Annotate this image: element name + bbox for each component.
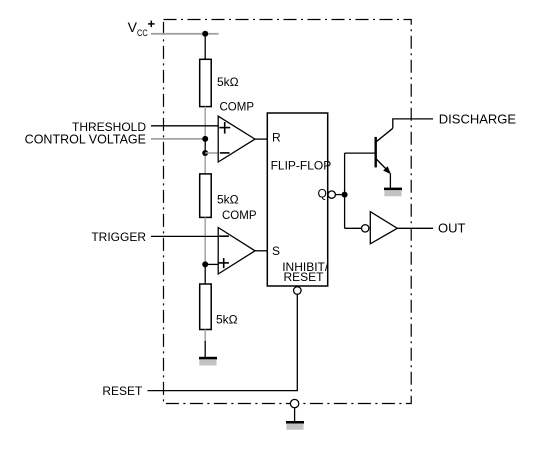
IC boundary dash-dot border	[164, 20, 412, 404]
wire CV node to comp1 minus node	[204, 139, 206, 153]
resistor R3	[200, 284, 212, 330]
wire comp2 output to S input	[255, 250, 267, 252]
svg-text:DISCHARGE: DISCHARGE	[439, 111, 517, 126]
ground (GND pin)	[286, 421, 304, 430]
wire Q to junction	[335, 194, 344, 196]
wire Q riser	[344, 153, 346, 228]
output buffer U3 (inverter)	[362, 212, 398, 244]
svg-text:OUT: OUT	[438, 220, 466, 235]
wire TRIGGER	[151, 235, 218, 237]
terminal Q	[328, 191, 335, 198]
svg-text:COMP: COMP	[220, 102, 255, 114]
svg-text:RESET: RESET	[283, 270, 324, 284]
wire THRESHOLD	[151, 125, 218, 127]
svg-text:Q: Q	[318, 187, 327, 201]
wire RESET riser	[148, 294, 298, 390]
svg-text:CC: CC	[137, 28, 148, 39]
wire R3 to ground	[204, 341, 206, 358]
comparator U1 COMP	[218, 116, 255, 162]
node comp1 inverting junction	[202, 150, 208, 156]
wire Vcc (gray)	[151, 33, 219, 35]
wire comp1 inverting stub (gray)	[205, 152, 218, 154]
Vcc terminal label	[128, 19, 155, 39]
wire collector to DISCHARGE	[393, 119, 433, 128]
comparator U2 COMP	[218, 228, 255, 275]
wire Q to output buffer	[345, 227, 362, 229]
wire CONTROL VOLTAGE (gray)	[151, 138, 205, 140]
junction Q node	[342, 192, 348, 198]
node comp2 non-inverting junction	[202, 261, 208, 267]
svg-text:5kΩ: 5kΩ	[217, 75, 239, 89]
svg-text:RESET: RESET	[102, 384, 143, 398]
transistor Q1	[376, 128, 393, 174]
node control voltage junction	[202, 136, 208, 142]
svg-text:COMP: COMP	[222, 210, 257, 222]
wire comp1 minus node to R2 (gray)	[204, 153, 206, 174]
wire divider chain R1 to CV node (gray)	[204, 107, 206, 139]
flip-flop box	[267, 113, 327, 286]
resistor R2	[200, 174, 212, 218]
wire comp2 non-inverting stub	[205, 263, 218, 265]
svg-text:S: S	[272, 244, 280, 258]
wire GND pin to ground	[294, 408, 296, 422]
svg-text:5kΩ: 5kΩ	[217, 193, 239, 207]
resistor R1	[200, 59, 212, 106]
svg-text:R: R	[272, 131, 281, 145]
svg-text:FLIP-FLOP: FLIP-FLOP	[271, 158, 332, 172]
wire Vcc to resistor R1	[204, 34, 206, 60]
wire comp2 plus node to R3	[204, 264, 206, 284]
svg-text:TRIGGER: TRIGGER	[91, 230, 146, 244]
wire emitter to ground	[389, 174, 391, 189]
wire comp1 output to R input	[255, 138, 267, 140]
terminal INHIBIT/RESET	[294, 287, 302, 295]
terminal GND	[290, 399, 298, 407]
ground (Q1 emitter)	[384, 188, 402, 197]
junction Vcc node	[202, 31, 208, 37]
svg-text:CONTROL VOLTAGE: CONTROL VOLTAGE	[25, 133, 146, 147]
ground (R3)	[199, 357, 217, 366]
svg-text:5kΩ: 5kΩ	[216, 313, 238, 327]
wire base of Q1	[345, 152, 376, 154]
wire divider chain R2 to comp2 plus node (gray)	[204, 217, 206, 264]
wire OUT	[397, 227, 433, 229]
wire R3 bottom stub (gray)	[204, 330, 206, 343]
